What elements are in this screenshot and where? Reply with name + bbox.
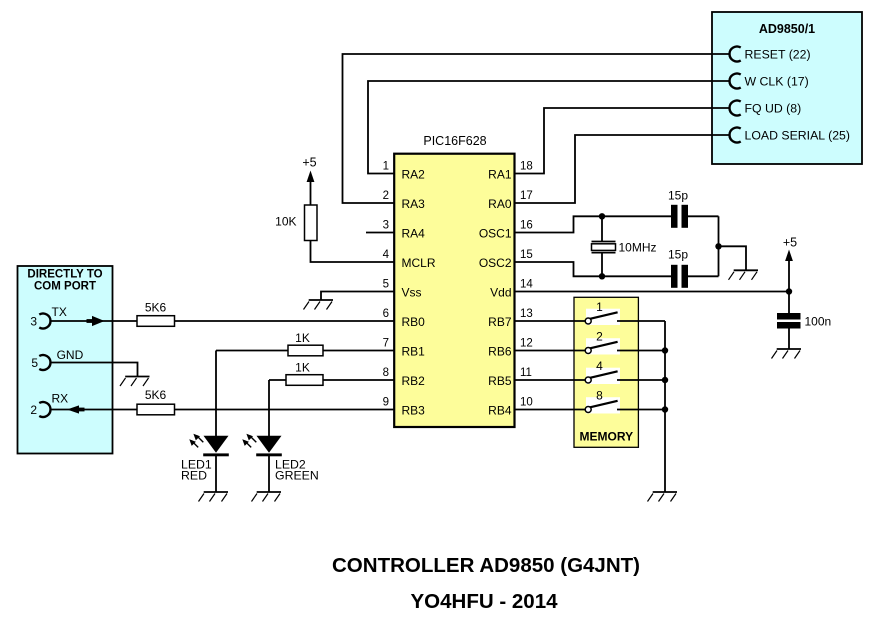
- svg-text:5K6: 5K6: [145, 301, 167, 315]
- svg-text:8: 8: [383, 367, 389, 379]
- svg-text:MCLR: MCLR: [402, 256, 436, 270]
- svg-text:FQ UD (8): FQ UD (8): [745, 102, 802, 116]
- svg-text:W CLK (17): W CLK (17): [745, 75, 809, 89]
- svg-text:16: 16: [520, 220, 533, 232]
- svg-text:RA2: RA2: [402, 168, 426, 182]
- svg-text:1: 1: [383, 161, 389, 173]
- svg-text:3: 3: [30, 314, 37, 328]
- svg-text:3: 3: [383, 220, 389, 232]
- svg-text:13: 13: [520, 308, 533, 320]
- svg-text:OSC2: OSC2: [479, 256, 512, 270]
- svg-text:2: 2: [383, 190, 389, 202]
- svg-text:COM PORT: COM PORT: [34, 281, 96, 293]
- svg-text:TX: TX: [52, 305, 67, 319]
- svg-text:CONTROLLER AD9850 (G4JNT): CONTROLLER AD9850 (G4JNT): [332, 555, 640, 577]
- svg-text:MEMORY: MEMORY: [580, 430, 634, 444]
- svg-text:RB0: RB0: [402, 315, 426, 329]
- svg-text:5K6: 5K6: [145, 388, 167, 402]
- svg-text:15p: 15p: [668, 189, 688, 203]
- svg-text:LOAD SERIAL (25): LOAD SERIAL (25): [745, 129, 850, 143]
- svg-text:2: 2: [30, 403, 37, 417]
- svg-text:RB1: RB1: [402, 345, 426, 359]
- svg-text:8: 8: [596, 389, 603, 403]
- svg-text:2: 2: [596, 330, 603, 344]
- svg-text:15: 15: [520, 249, 533, 261]
- svg-text:RA1: RA1: [488, 168, 512, 182]
- svg-text:7: 7: [383, 338, 389, 350]
- svg-text:GREEN: GREEN: [275, 469, 319, 483]
- svg-text:RB7: RB7: [488, 315, 512, 329]
- svg-text:1K: 1K: [295, 361, 310, 375]
- svg-text:1K: 1K: [295, 331, 310, 345]
- svg-text:RB5: RB5: [488, 374, 512, 388]
- svg-text:+5: +5: [783, 236, 797, 250]
- svg-text:14: 14: [520, 279, 533, 291]
- svg-text:1: 1: [596, 300, 603, 314]
- svg-text:6: 6: [383, 308, 389, 320]
- svg-text:Vdd: Vdd: [490, 286, 511, 300]
- svg-text:YO4HFU - 2014: YO4HFU - 2014: [411, 591, 559, 613]
- svg-text:4: 4: [596, 359, 603, 373]
- svg-text:11: 11: [520, 367, 532, 379]
- svg-text:10K: 10K: [275, 215, 296, 229]
- svg-text:AD9850/1: AD9850/1: [759, 22, 815, 36]
- svg-text:RA3: RA3: [402, 197, 426, 211]
- svg-text:RA4: RA4: [402, 227, 426, 241]
- svg-text:RB4: RB4: [488, 404, 512, 418]
- svg-text:PIC16F628: PIC16F628: [423, 134, 486, 148]
- svg-text:4: 4: [383, 249, 390, 261]
- svg-text:100n: 100n: [805, 315, 832, 329]
- svg-text:DIRECTLY TO: DIRECTLY TO: [27, 269, 102, 281]
- svg-text:RB2: RB2: [402, 374, 426, 388]
- svg-text:12: 12: [520, 338, 533, 350]
- svg-text:18: 18: [520, 161, 533, 173]
- svg-text:17: 17: [520, 190, 533, 202]
- svg-text:5: 5: [383, 279, 389, 291]
- svg-text:RB3: RB3: [402, 404, 426, 418]
- svg-text:5: 5: [31, 356, 38, 370]
- svg-text:9: 9: [383, 397, 389, 409]
- svg-text:10: 10: [520, 397, 533, 409]
- svg-text:RESET (22): RESET (22): [745, 48, 811, 62]
- svg-text:RA0: RA0: [488, 197, 512, 211]
- svg-text:RED: RED: [181, 469, 207, 483]
- svg-text:15p: 15p: [668, 248, 688, 262]
- svg-text:10MHz: 10MHz: [619, 241, 657, 255]
- svg-text:+5: +5: [302, 156, 316, 170]
- svg-text:Vss: Vss: [402, 286, 422, 300]
- svg-text:OSC1: OSC1: [479, 227, 512, 241]
- svg-text:RX: RX: [52, 392, 69, 406]
- svg-text:GND: GND: [57, 348, 84, 362]
- svg-text:RB6: RB6: [488, 345, 512, 359]
